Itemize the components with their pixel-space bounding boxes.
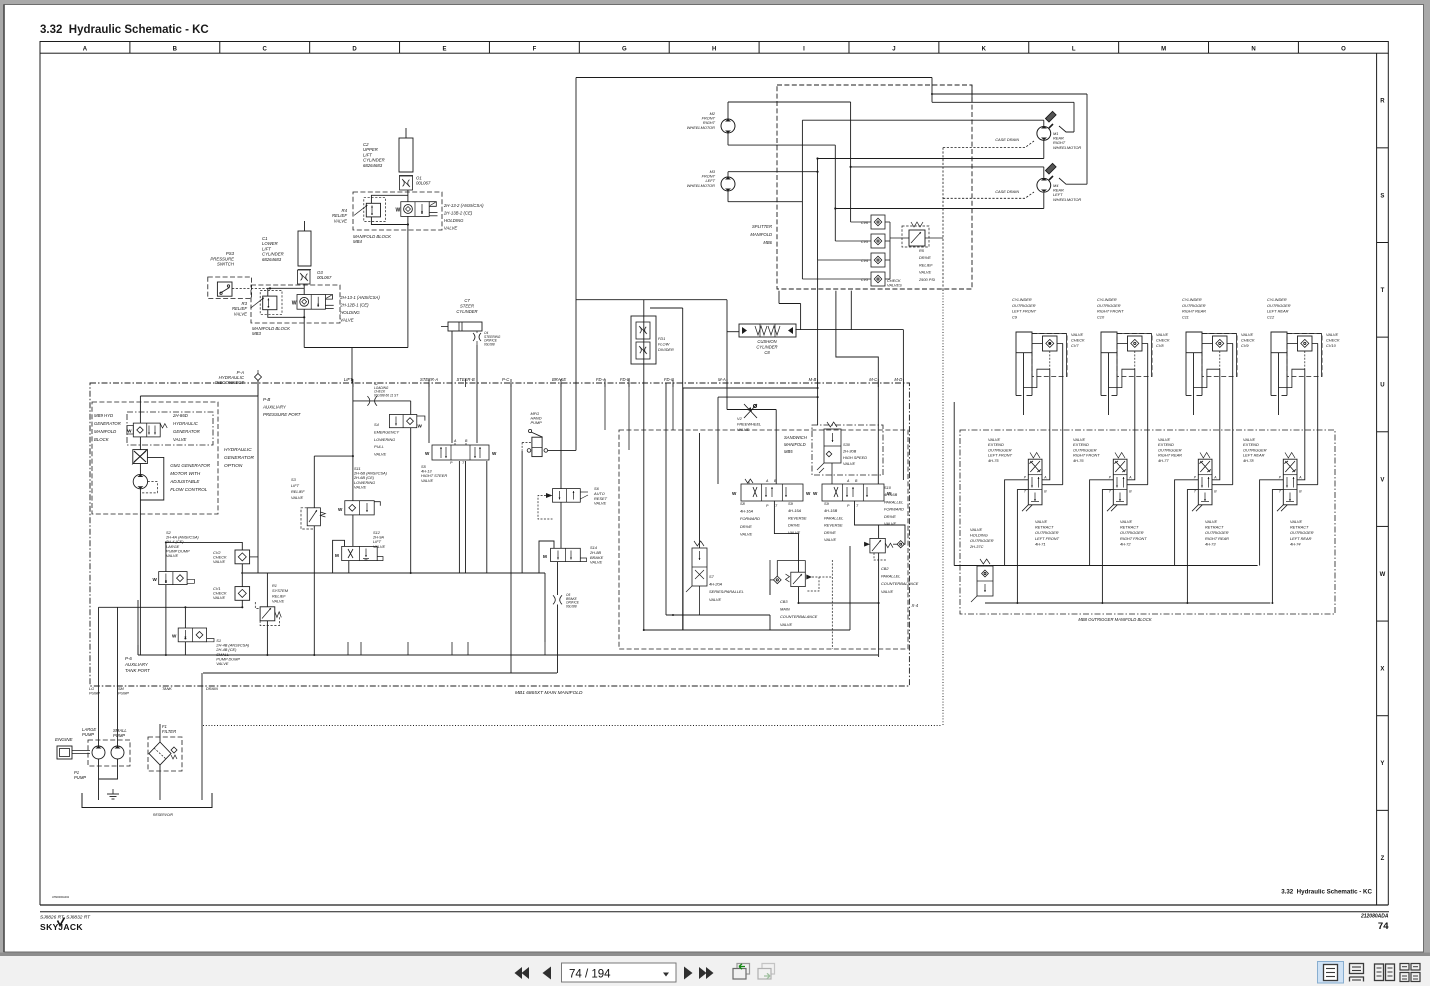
layout icon two pages (1375, 964, 1384, 981)
svg-text:CASE DRAIN: CASE DRAIN (995, 137, 1019, 142)
svg-text:W: W (338, 507, 343, 512)
R1 wires (266, 573, 268, 607)
motor M4 rear left (1037, 178, 1051, 192)
svg-text:R: R (1380, 99, 1385, 105)
svg-text:DRAIN: DRAIN (206, 687, 218, 691)
below splitter vertical M-D (850, 291, 852, 330)
hand pump (529, 429, 532, 432)
svg-text:B: B (173, 47, 178, 53)
outrigger wires C12 (1297, 369, 1305, 480)
wire M1 feed right (972, 101, 1074, 103)
check valve CV4 (871, 253, 885, 267)
svg-text:74: 74 (1378, 921, 1389, 932)
splitter manifold MB6 box (777, 85, 972, 289)
wire M4 feed right (1086, 94, 1088, 184)
splitter vertical A (850, 102, 852, 222)
valve auto reset (553, 489, 581, 503)
wire steer cylinder left (451, 331, 453, 443)
svg-text:M: M (1161, 47, 1166, 53)
svg-text:RESERVOIR: RESERVOIR (153, 813, 173, 817)
outrigger wires C9 (1042, 369, 1050, 480)
frame left border (39, 42, 41, 906)
wire M1 bottom (1043, 140, 1045, 158)
check valve CV1 (235, 587, 250, 601)
wire pump P2 vertical (117, 607, 119, 746)
svg-text:D: D (352, 47, 357, 53)
cylinder C1 lower lift (298, 231, 311, 266)
case drain dotted 2 (943, 192, 1034, 198)
check valve CV2 (235, 550, 250, 564)
valve S2 (159, 572, 187, 585)
svg-text:W: W (492, 451, 497, 456)
check valve CV5 (871, 234, 885, 248)
motor M1 rear right (1037, 126, 1051, 140)
relief valve R3 (263, 296, 277, 310)
wires brake (560, 502, 562, 548)
steer-A port wire (428, 383, 430, 443)
splitter vertical B (834, 145, 836, 241)
toolbar next-page button (684, 967, 693, 980)
filter F1 (148, 737, 182, 771)
wire freewheel (727, 409, 776, 411)
svg-text:212080ADA: 212080ADA (1360, 914, 1389, 920)
holding valve 2H-13-2 (401, 202, 429, 217)
splitter vertical D (801, 120, 803, 279)
tank bus drop stubs (347, 642, 349, 655)
wire lift join (304, 347, 408, 349)
wire drain down (201, 673, 203, 800)
grid header row (40, 42, 1388, 54)
dotted manifold return (942, 290, 944, 726)
CB2 bottom (878, 553, 880, 657)
svg-text:C: C (263, 47, 268, 53)
svg-text:O: O (1341, 47, 1346, 53)
svg-text:W: W (127, 429, 132, 434)
hydraulic generator option box (92, 402, 218, 514)
valve S8 forward drive (741, 484, 803, 501)
svg-text:CASE DRAIN: CASE DRAIN (995, 189, 1019, 194)
manifold block MB4 (353, 192, 442, 230)
svg-text:W: W (292, 300, 297, 306)
R3 tee loops (268, 288, 304, 296)
brake orifice (553, 595, 555, 604)
bridge step (931, 78, 933, 103)
svg-text:S: S (1380, 193, 1384, 199)
svg-text:N: N (1251, 47, 1255, 53)
valve S7 series parallel (692, 548, 707, 586)
svg-text:SJ8826 RT, SJ8832 RT: SJ8826 RT, SJ8832 RT (40, 915, 91, 921)
wire hand pump tank (521, 450, 523, 573)
cushion bus (795, 329, 903, 331)
check valve connector (889, 222, 891, 279)
wire pump P1 vertical (98, 607, 100, 746)
toolbar next-view icon (disabled) (758, 969, 771, 980)
outrigger manifold MB8 box (960, 430, 1335, 614)
outrigger wires C11 (1212, 369, 1220, 480)
svg-text:M-B: M-B (809, 377, 817, 382)
wire filter (159, 724, 161, 742)
R4 tee loops (371, 195, 408, 203)
tank symbol (107, 793, 119, 795)
valve S11 lowering (345, 501, 374, 515)
toolbar background (0, 953, 1430, 957)
svg-text:FD-B: FD-B (620, 377, 630, 382)
wires lift valves (352, 515, 354, 547)
svg-text:ENGINE: ENGINE (55, 737, 74, 742)
S12 tank loop (333, 540, 345, 573)
svg-text:U: U (1380, 383, 1384, 389)
S3 tap line (314, 455, 353, 457)
wire MB4 down (407, 216, 409, 347)
wire steer cylinder right (476, 345, 478, 443)
valve S9 parallel reverse drive (822, 484, 884, 501)
toolbar last-page button (699, 967, 707, 979)
steer orifice (473, 333, 475, 341)
svg-text:M: M (335, 553, 339, 558)
wire lift port drop (351, 348, 353, 384)
svg-text:W: W (425, 451, 430, 456)
svg-text:W: W (806, 491, 811, 496)
valve S4 emergency lowering (389, 415, 416, 428)
wires left cluster (257, 381, 259, 574)
reservoir (82, 793, 212, 808)
brake valve tank loop (539, 541, 554, 573)
valve brake 2H-8B (551, 548, 581, 561)
svg-text:T: T (1381, 288, 1385, 294)
wires S5 down (458, 461, 460, 573)
dump return bus (99, 606, 243, 608)
svg-text:M-A: M-A (718, 377, 726, 382)
tank bus (138, 654, 878, 656)
svg-text:A: A (453, 439, 457, 443)
svg-text:P-C: P-C (502, 377, 510, 382)
outrigger left feed (953, 402, 955, 566)
svg-text:A: A (83, 47, 88, 53)
generator valve box 2H-86D (127, 412, 213, 445)
CB3 check bypass (777, 561, 805, 577)
svg-text:V: V (1380, 477, 1384, 483)
check valve CV7 (1032, 334, 1067, 377)
svg-text:ATM0000A002: ATM0000A002 (52, 895, 70, 899)
motor M3 front left (721, 177, 735, 191)
svg-text:Z: Z (1381, 856, 1385, 862)
wire P-C down (510, 383, 512, 673)
svg-text:LIFT: LIFT (344, 377, 353, 382)
svg-text:W: W (1380, 572, 1386, 578)
wire C1 to MB3 (303, 284, 305, 295)
wire P-A horizontal (140, 395, 258, 397)
orifice O1 (400, 176, 413, 190)
check valve CV8 (1117, 334, 1152, 377)
check valve CV3 (871, 272, 885, 286)
wires FD1 (643, 300, 645, 630)
sandwich manifold MB5 (812, 425, 883, 475)
CB2 pilot dashes (874, 553, 886, 560)
svg-text:3.32 Hydraulic Schematic - KC: 3.32 Hydraulic Schematic - KC (40, 24, 209, 36)
counterbalance CB3 (774, 576, 782, 584)
valve S5 high steer (432, 445, 489, 460)
below splitter vertical M-C (836, 291, 878, 484)
freewheel valve V2 (744, 404, 757, 418)
splitter vertical C (817, 159, 819, 261)
check valve CV10 (1287, 334, 1322, 377)
wire PS3 pilot (232, 287, 270, 289)
drive section dashed box (619, 430, 908, 649)
holding valve 2H-13-1 (297, 295, 325, 310)
wire M3 top (727, 172, 729, 178)
svg-text:W: W (813, 491, 818, 496)
svg-text:BRAKE: BRAKE (552, 377, 566, 382)
case drain vertical dotted (942, 148, 944, 290)
svg-text:74 / 194: 74 / 194 (569, 969, 611, 981)
wire M4 bottom (1043, 193, 1045, 209)
svg-text:MB1 6865XT MAIN MANIFOLD: MB1 6865XT MAIN MANIFOLD (515, 690, 583, 696)
junction dots (931, 93, 933, 95)
outrigger bus 2 (985, 602, 1270, 604)
CB2 bypass loop (879, 525, 905, 544)
svg-text:A: A (846, 479, 850, 483)
loading check orifice line (353, 400, 411, 402)
motor M2 front right (721, 119, 735, 133)
layout icon single page (active) (1318, 962, 1344, 984)
svg-text:A: A (765, 479, 769, 483)
check valve CV6 (871, 215, 885, 229)
svg-text:H: H (712, 47, 716, 53)
svg-text:G: G (622, 47, 627, 53)
pump P1 (92, 746, 105, 759)
counterbalance CB2 (864, 542, 870, 547)
wire generator feed (139, 396, 141, 423)
svg-text:F: F (533, 47, 537, 53)
wire orifice to S4 (410, 401, 412, 415)
CB2 feed (855, 501, 879, 539)
wire MB3 down (303, 309, 305, 347)
check valve CV9 (1202, 334, 1237, 377)
cylinder C2 upper lift (399, 138, 413, 172)
toolbar page number box (562, 963, 677, 982)
layout icon two pages continuous (1400, 964, 1409, 971)
flow divider FD1 (631, 316, 656, 364)
relief valve R1 (260, 607, 275, 621)
svg-text:W: W (153, 577, 158, 582)
below splitter vertical M-B (817, 260, 819, 425)
svg-text:M-C: M-C (869, 377, 878, 382)
wire M3 bottom (727, 191, 729, 202)
svg-text:W: W (396, 208, 401, 214)
valve S1 small pump dump (178, 628, 206, 642)
drive relief valve R5 (909, 230, 925, 246)
wire M1 top (802, 119, 1043, 121)
wire brake port (560, 383, 562, 489)
mid bus (241, 572, 545, 574)
relief valve S3 body (307, 508, 320, 526)
flow control symbol (133, 450, 148, 464)
svg-text:J: J (892, 47, 895, 53)
svg-text:K: K (982, 47, 987, 53)
outrigger bus 1 (954, 565, 1257, 567)
pump box (88, 740, 130, 766)
wire hand pump to feed (548, 449, 576, 451)
main manifold MB1 boundary (90, 383, 909, 686)
valve S30 high speed (824, 429, 841, 463)
wire M2 top (727, 102, 729, 120)
orifice O3 (298, 270, 311, 284)
footer rule (40, 911, 1389, 913)
motor GM1 (133, 474, 147, 488)
svg-text:Y: Y (1380, 761, 1384, 767)
svg-text:X: X (1380, 667, 1384, 673)
long feed vertical (575, 78, 577, 451)
wire S3 down (313, 526, 315, 655)
toolbar previous-view icon (733, 969, 746, 980)
steer cylinder C7 (448, 322, 482, 331)
svg-text:W: W (732, 491, 737, 496)
svg-text:3.32 Hydraulic Schematic - KC: 3.32 Hydraulic Schematic - KC (1281, 889, 1372, 896)
cushion cylinder C8 (739, 324, 796, 337)
svg-text:FD-A: FD-A (596, 377, 606, 382)
svg-text:M-D: M-D (894, 377, 902, 382)
toolbar prev-page button (543, 967, 552, 980)
drain bus (203, 672, 557, 674)
wire M2 bottom (727, 133, 729, 145)
right letter strip (1376, 53, 1378, 905)
wire C2 to MB4 (407, 190, 409, 202)
svg-text:W: W (172, 634, 177, 639)
dotted drain line (203, 725, 942, 727)
wire lift down (352, 383, 354, 501)
case drain dotted 1 (943, 141, 1034, 148)
valve S12 lift (342, 546, 378, 560)
wire M4 top (851, 166, 1044, 168)
top bus wire (576, 77, 932, 79)
svg-text:M: M (543, 554, 547, 559)
svg-text:X-4: X-4 (911, 603, 919, 608)
wire S4 down (410, 428, 412, 573)
outrigger wires C10 (1127, 369, 1135, 480)
svg-text:E: E (442, 47, 446, 53)
relief valve R4 (366, 203, 380, 217)
layout icon continuous (1350, 964, 1364, 974)
drive wires (682, 388, 684, 630)
manifold block MB3 (251, 285, 340, 323)
frame bottom border (40, 904, 1388, 906)
svg-text:L: L (1072, 47, 1076, 53)
generator valve 2H-86D (133, 423, 160, 437)
pump P2 (111, 746, 124, 759)
toolbar first-page button (522, 967, 530, 979)
svg-text:TANK: TANK (162, 687, 172, 691)
svg-text:CHECKVALVES: CHECKVALVES (887, 278, 902, 288)
flow control bypass (140, 457, 163, 500)
svg-text:W: W (418, 424, 423, 429)
svg-text:MB8 OUTRIGGER MANIFOLD BLOCK: MB8 OUTRIGGER MANIFOLD BLOCK (1078, 617, 1151, 622)
